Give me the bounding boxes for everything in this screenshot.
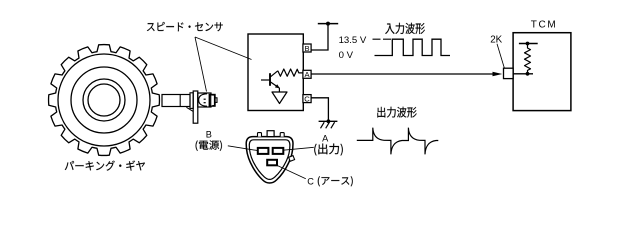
leader line pin C to C label — [277, 165, 306, 178]
svg-text:TCM: TCM — [531, 20, 557, 31]
label TCM — [531, 20, 557, 31]
speed sensor body — [162, 91, 217, 123]
TCM input terminal — [504, 68, 514, 78]
resistor 2K (pull-up inside TCM) — [513, 42, 538, 76]
svg-text:2K: 2K — [490, 34, 502, 45]
TCM box — [513, 33, 571, 111]
svg-text:B: B — [206, 130, 212, 140]
speed sensor circuit box — [248, 34, 303, 111]
resistor inside sensor (collector to terminal A) — [278, 69, 304, 76]
label 13.5 V — [339, 35, 367, 46]
terminal C of sensor — [303, 94, 311, 103]
leader line from label to sensor head — [195, 37, 207, 92]
ground symbol (open triangle, sensor internal) — [272, 92, 287, 104]
leader line from label to sensor circuit box — [195, 37, 252, 60]
parking gear — [49, 45, 160, 156]
connector pin A — [273, 148, 284, 154]
output waveform (spikes) — [357, 128, 439, 155]
svg-text:B: B — [304, 44, 309, 53]
wire: terminal A to TCM (output signal) — [311, 72, 502, 76]
label: output waveform (出力波形) — [377, 107, 416, 118]
label B (power) — [206, 130, 212, 140]
connector pin C — [267, 160, 277, 166]
input waveform (square wave) — [375, 39, 451, 55]
power supply bar (13.5V feed) — [318, 22, 338, 26]
wire: terminal C to chassis ground — [311, 98, 328, 122]
svg-text:C: C — [304, 94, 310, 103]
terminal B of sensor — [303, 44, 311, 53]
leader line B label to pin B — [228, 146, 258, 151]
svg-text:C: C — [307, 176, 314, 186]
svg-text:A: A — [322, 134, 329, 144]
leader line pin A to A label — [283, 147, 314, 150]
transistor Q1 (NPN, inside sensor) — [261, 71, 280, 92]
label: input waveform (入力波形) — [385, 23, 425, 34]
label: speed sensor (スピード・センサ) — [147, 22, 223, 31]
label (電源) — [196, 140, 222, 151]
chassis ground symbol — [319, 119, 338, 128]
label C (earth) — [307, 176, 314, 186]
svg-text:13.5 V: 13.5 V — [339, 35, 367, 46]
svg-text:0 V: 0 V — [339, 50, 354, 61]
terminal A of sensor — [303, 70, 311, 79]
label (出力) — [314, 144, 343, 156]
label: parking gear (パーキング・ギヤ) — [65, 160, 145, 170]
wire: terminal B to supply — [311, 24, 328, 50]
connector pin B — [258, 148, 269, 154]
label 2K with leader — [490, 34, 504, 68]
input waveform dashed high level — [373, 38, 392, 40]
label (アース) — [318, 176, 353, 186]
sensor connector face view — [246, 131, 294, 183]
label 0 V — [339, 50, 354, 61]
label A (output) — [322, 134, 329, 144]
